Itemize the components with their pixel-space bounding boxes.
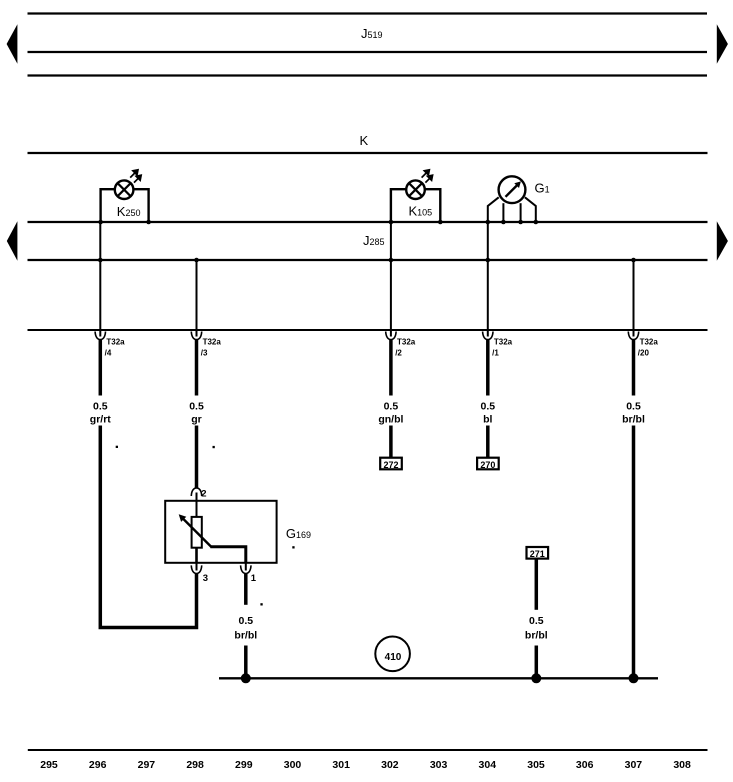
svg-text:br/bl: br/bl xyxy=(622,413,645,425)
gauge G1 needle arrowhead xyxy=(514,181,521,188)
svg-text:br/bl: br/bl xyxy=(234,630,257,642)
svg-text:0.5: 0.5 xyxy=(189,401,204,413)
wire track 302 inside xyxy=(390,222,392,337)
connector T32a/2 xyxy=(386,332,396,340)
svg-text:3: 3 xyxy=(203,573,208,584)
svg-text:0.5: 0.5 xyxy=(480,401,495,413)
svg-text:301: 301 xyxy=(332,759,350,771)
svg-text:308: 308 xyxy=(673,759,691,771)
wire pin 3 stub xyxy=(196,563,198,571)
ground junction dot track 307 xyxy=(629,673,639,683)
wire track 307 inside xyxy=(633,260,635,337)
svg-text:298: 298 xyxy=(186,759,204,771)
wire bl upper segment xyxy=(486,339,490,396)
svg-text:gn/bl: gn/bl xyxy=(378,413,403,425)
track numbers xyxy=(40,759,691,771)
svg-text:302: 302 xyxy=(381,759,399,771)
marker dot G169 xyxy=(292,546,294,548)
svg-text:0.5: 0.5 xyxy=(238,615,253,627)
svg-text:296: 296 xyxy=(89,759,107,771)
junction dot track 307 xyxy=(631,258,636,263)
svg-text:bl: bl xyxy=(483,413,492,425)
optical indicator arrows K250 xyxy=(130,169,141,182)
G169 resistor element xyxy=(192,517,202,548)
svg-text:/4: /4 xyxy=(105,349,112,358)
G169 pin 3 connector xyxy=(191,565,201,573)
svg-text:272: 272 xyxy=(383,460,398,470)
svg-text:K: K xyxy=(360,133,369,148)
svg-text:T32a: T32a xyxy=(203,338,222,347)
bus J285 top line xyxy=(28,221,708,223)
bus J519 top line xyxy=(28,12,708,14)
sender G169 box xyxy=(165,501,276,563)
svg-text:306: 306 xyxy=(576,759,594,771)
svg-text:gr: gr xyxy=(191,413,202,425)
optical indicator arrows K105 xyxy=(422,169,433,182)
svg-text:305: 305 xyxy=(527,759,545,771)
G169 wiper arrow xyxy=(183,518,212,547)
connector T32a/4 xyxy=(95,332,105,340)
wire pin 1 stub xyxy=(245,563,247,571)
connection point 271 xyxy=(527,547,549,559)
connector T32a/3 xyxy=(191,332,201,340)
wire br/bl track 307 lower segment xyxy=(632,426,636,679)
svg-text:T32a: T32a xyxy=(494,338,513,347)
junction dot K250 right leg xyxy=(146,220,151,225)
wire track 298 inside xyxy=(196,260,198,337)
svg-text:T32a: T32a xyxy=(640,338,659,347)
junction dot G1 leg 2 xyxy=(501,220,506,225)
svg-text:T32a: T32a xyxy=(106,338,125,347)
bus K line xyxy=(28,152,708,154)
junction dot G1 leg 1 xyxy=(486,220,491,225)
junction dot G1 leg 3 xyxy=(518,220,523,225)
warning lamp K250 xyxy=(101,180,149,222)
wire gr/rt lower segment to G169 pin 3 xyxy=(100,426,196,628)
connector T32a/20 xyxy=(628,332,638,340)
svg-text:br/bl: br/bl xyxy=(525,630,548,642)
bus J519 bottom line xyxy=(28,74,708,76)
marker dot gr xyxy=(213,446,215,448)
junction dot G1 leg 4 xyxy=(534,220,539,225)
svg-text:270: 270 xyxy=(480,460,495,470)
svg-text:/20: /20 xyxy=(638,349,650,358)
marker dot pin1 wire xyxy=(260,603,262,605)
svg-text:/1: /1 xyxy=(492,349,499,358)
wire bl lower segment xyxy=(486,426,490,458)
svg-text:303: 303 xyxy=(430,759,448,771)
junction dot K105 left leg xyxy=(389,220,394,225)
G169 internal wire resistor to pin3 xyxy=(195,547,198,563)
junction dot track 298 xyxy=(194,258,199,263)
wire gr/rt upper segment xyxy=(99,339,103,396)
svg-text:0.5: 0.5 xyxy=(626,401,641,413)
wire track 296 inside J285 xyxy=(99,222,101,337)
ground junction dot track 305 xyxy=(531,673,541,683)
svg-text:410: 410 xyxy=(385,652,402,663)
gauge G1 xyxy=(488,176,536,222)
wire gr lower segment xyxy=(195,426,199,488)
junction dot track 296 xyxy=(98,258,103,263)
wire track 304 inside xyxy=(487,222,489,337)
bus continuation arrow right J285 xyxy=(717,221,728,261)
wire gn/bl lower segment xyxy=(389,426,393,458)
svg-text:1: 1 xyxy=(251,573,257,584)
svg-text:300: 300 xyxy=(284,759,302,771)
sender G169 pin 2 connector xyxy=(191,488,201,496)
bus continuation arrow left J285 xyxy=(7,221,18,261)
wire gr upper segment xyxy=(195,339,199,396)
junction dot track 302 xyxy=(389,258,394,263)
warning lamp K105 xyxy=(391,180,440,222)
wire pin 2 stub xyxy=(196,493,198,518)
G169 internal wire wiper to pin 1 xyxy=(210,547,245,563)
junction dot K250 left leg xyxy=(98,220,103,225)
svg-text:gr/rt: gr/rt xyxy=(90,413,112,425)
ground junction dot track 299 xyxy=(241,673,251,683)
bus continuation arrow left J519 xyxy=(7,24,18,64)
junction dot K105 right leg xyxy=(438,220,443,225)
wire br/bl from 271 lower xyxy=(535,646,539,679)
ground bus line xyxy=(219,677,658,679)
G169 pin 1 connector xyxy=(241,565,251,573)
wire br/bl from pin 1 lower xyxy=(244,646,248,679)
bus J519 middle line xyxy=(28,51,708,53)
bus continuation arrow right J519 xyxy=(717,24,728,64)
svg-text:0.5: 0.5 xyxy=(529,615,544,627)
marker dot gr/rt xyxy=(116,446,118,448)
bus J285 bottom line xyxy=(28,259,708,261)
svg-text:304: 304 xyxy=(479,759,497,771)
svg-text:297: 297 xyxy=(138,759,156,771)
junction dot track 304 xyxy=(486,258,491,263)
wire br/bl from 271 upper xyxy=(535,559,539,610)
svg-text:295: 295 xyxy=(40,759,58,771)
svg-text:/2: /2 xyxy=(395,349,402,358)
connector T32a/1 xyxy=(483,332,493,340)
svg-text:271: 271 xyxy=(530,549,545,559)
wire br/bl from pin 1 upper xyxy=(244,573,248,605)
connection point 270 xyxy=(477,458,499,470)
ground marker 410 xyxy=(375,637,410,672)
wire gn/bl upper segment xyxy=(389,339,393,396)
connection point 272 xyxy=(380,458,402,470)
wire br/bl track 307 upper segment xyxy=(632,339,636,396)
svg-text:2: 2 xyxy=(201,488,206,499)
svg-text:0.5: 0.5 xyxy=(384,401,399,413)
svg-text:307: 307 xyxy=(625,759,643,771)
svg-text:0.5: 0.5 xyxy=(93,401,108,413)
connector strip line xyxy=(28,329,708,331)
svg-text:299: 299 xyxy=(235,759,253,771)
svg-text:/3: /3 xyxy=(201,349,208,358)
bottom frame line xyxy=(28,749,708,751)
svg-text:T32a: T32a xyxy=(397,338,416,347)
